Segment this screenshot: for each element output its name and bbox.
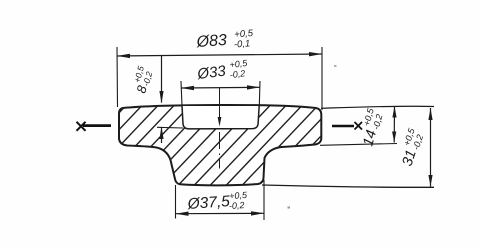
dim 8: value text (rotated) — [130, 65, 156, 95]
dim Ø83: dimension line — [117, 54, 322, 56]
dim 8: upper dimension line with down arrow — [161, 56, 163, 103]
hatching — [40, 96, 375, 196]
flange underside extension line (for 14) — [320, 144, 397, 146]
dim Ø83: left extension line — [116, 47, 119, 107]
dim 31: bottom arrowhead — [428, 175, 432, 187]
svg-text:-0,2: -0,2 — [229, 200, 245, 211]
dim Ø83: left arrowhead — [117, 54, 130, 58]
dim Ø33: left extension line — [181, 81, 182, 106]
left surface mark leader line — [83, 124, 111, 127]
dim 14: value text (rotated) — [357, 106, 386, 148]
dim Ø37,5: value text — [186, 190, 249, 214]
dim Ø37,5: dimension line — [176, 212, 265, 214]
dim Ø33: right extension line — [258, 81, 261, 106]
dim Ø37,5: right arrowhead — [251, 211, 264, 215]
svg-text:Ø33: Ø33 — [195, 63, 227, 84]
centerline dash-dot in stem — [219, 132, 221, 169]
top extension line to right dims — [321, 106, 434, 108]
dim Ø37,5: left arrowhead — [176, 212, 189, 216]
dim Ø33: value text — [195, 58, 250, 84]
svg-text:31: 31 — [400, 148, 420, 168]
centerline arrowhead at recess bottom — [218, 117, 222, 127]
scan speck below bottom line — [288, 207, 291, 209]
svg-text:Ø37,5: Ø37,5 — [186, 193, 231, 213]
dim 14: dimension line — [393, 106, 395, 143]
dim Ø33: right arrowhead — [247, 85, 260, 89]
dim Ø33: left arrowhead — [181, 86, 194, 90]
dim 31: dimension line — [430, 108, 432, 187]
recess cavity (white, unhatched) — [182, 106, 259, 129]
dim Ø37,5: right extension line — [263, 180, 265, 220]
dim 31: value text (rotated) — [396, 126, 427, 168]
right surface mark X — [355, 122, 363, 130]
scan speck left of right X — [334, 65, 337, 67]
dim 8: lower dimension line with up arrow — [161, 127, 163, 143]
dim 14: bottom arrowhead — [392, 132, 396, 143]
recess walls and bottom — [182, 106, 259, 129]
dim Ø83: value text — [195, 28, 255, 53]
bottom extension line (stem bottom extended to 31 dim) — [262, 185, 434, 187]
centerline (part axis) — [219, 88, 221, 122]
svg-text:-0,1: -0,1 — [234, 38, 251, 50]
right surface mark leader line — [332, 125, 354, 128]
dim Ø83: right arrowhead — [309, 52, 322, 56]
dim 8: recess-bottom extension line — [157, 126, 183, 129]
dim Ø83: right extension line — [321, 47, 323, 110]
dim Ø37,5: left extension line — [175, 185, 177, 219]
part cross-section outline — [119, 105, 321, 185]
svg-text:-0,2: -0,2 — [229, 68, 246, 80]
dim 14: top arrowhead — [392, 106, 396, 118]
dim Ø33: dimension line — [181, 86, 260, 89]
svg-text:14: 14 — [360, 128, 380, 148]
svg-text:Ø83: Ø83 — [195, 32, 227, 51]
left surface mark X — [77, 122, 86, 131]
svg-text:+0,5: +0,5 — [229, 190, 248, 201]
dim 31: top arrowhead — [428, 108, 432, 120]
